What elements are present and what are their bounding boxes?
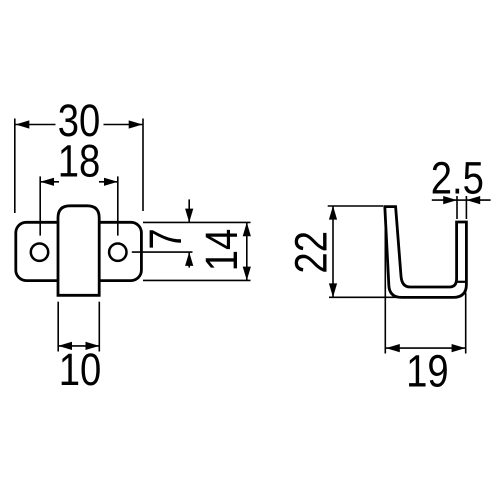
dim 7 upper arrow line [188,199,190,222]
svg-text:2.5: 2.5 [431,152,484,203]
dim 18 arrow left [40,178,54,186]
dim 2.5 extension line left [456,196,458,219]
dim 2.5 line right [466,199,490,201]
dim 19 arrow left [386,344,400,352]
dim 10 extension line left [57,302,59,352]
dim 22 bottom extension line [329,296,399,298]
dim 19 arrow right [452,344,466,352]
dim 30 arrow left [16,120,30,128]
dim 18 arrow right [104,178,118,186]
dim 22 arrow top [329,206,337,220]
dim 10 arrow right [86,342,100,350]
svg-text:19: 19 [406,346,449,397]
dim 19 extension line left [384,208,386,354]
dim 7 lower arrow [185,252,193,266]
plate bottom extension line [143,279,251,281]
dim 22 arrow bottom [329,283,337,297]
dim 18 line left segment [40,181,59,183]
leader line from right hole [132,251,193,253]
dim 19 extension line right [465,293,467,354]
svg-text:14: 14 [196,229,247,272]
svg-text:7: 7 [140,228,191,249]
dim 10 line [58,345,99,347]
dim 30 extension line left [14,119,16,214]
dim 2.5 arrow right [466,196,480,204]
dim 18 extension line right [117,176,119,235]
dim 30 extension line right [142,119,144,212]
dim 14 arrow bottom [243,267,251,281]
dim 2.5 extension line right [465,196,467,219]
svg-text:22: 22 [285,231,336,274]
dim 18 extension line left [39,176,41,235]
svg-text:10: 10 [59,344,102,395]
dim 2.5 arrow left [443,196,457,204]
bend edge tick on lip [457,281,467,283]
dim 30 line right segment [104,124,143,126]
hook profile outline [385,207,467,298]
dim 7 upper arrow [185,209,193,223]
svg-text:18: 18 [58,136,101,187]
dim 19 line [386,347,465,349]
dim 2.5 through line [457,199,466,201]
dim 10 arrow left [58,342,72,350]
dim 22 line [332,206,334,297]
dim 30 arrow right [129,120,143,128]
dim 14 line [246,222,248,280]
dim 7 lower arrow line [188,252,190,268]
dim 14 arrow top [243,222,251,236]
dim 30 line left segment [16,124,56,126]
plate top extension line [143,221,251,223]
dim 18 line right segment [99,181,118,183]
dim 2.5 line left [432,199,457,201]
dim 10 extension line right [98,302,100,352]
center tab outline [58,206,99,295]
right hole [109,244,126,261]
left hole [31,244,48,261]
base plate outline [16,222,142,280]
dim 22 top extension line [328,205,383,207]
